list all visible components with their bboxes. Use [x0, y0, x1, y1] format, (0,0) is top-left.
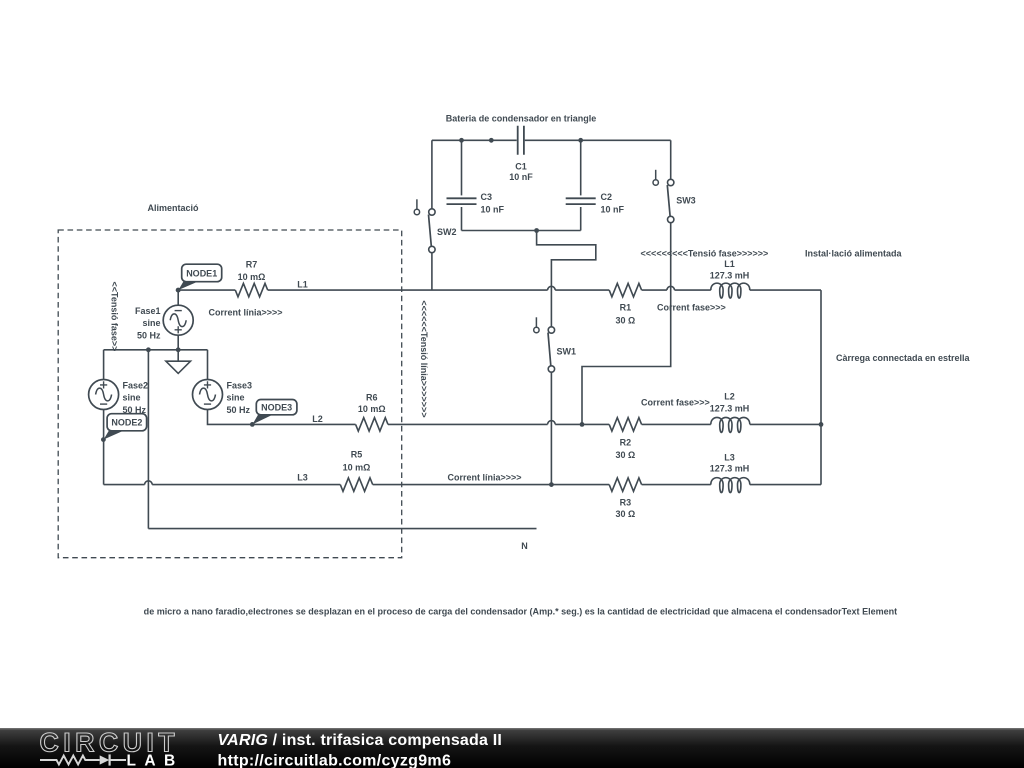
- svg-text:LAB: LAB: [127, 752, 184, 768]
- svg-text:R6: R6: [366, 392, 378, 402]
- text: net label L3: [297, 472, 308, 482]
- svg-text:SW1: SW1: [557, 346, 577, 356]
- svg-text:sine: sine: [227, 393, 245, 403]
- inductor L3 (127.3 mH): [710, 452, 750, 492]
- junction: NODE1 / row L1 / Fase1: [176, 288, 181, 293]
- junction: common rail / ground: [176, 347, 181, 352]
- capacitor C3 (10 nF): [447, 192, 505, 214]
- wire: to R2: [555, 423, 609, 425]
- text: net label L2: [312, 414, 323, 424]
- svg-text:Corrent línia>>>>: Corrent línia>>>>: [209, 308, 283, 318]
- junction: SW1 / row L3: [549, 482, 554, 487]
- wire: junction to R3: [549, 484, 609, 486]
- svg-text:VARIG / inst. trifasica compen: VARIG / inst. trifasica compensada II: [218, 732, 503, 749]
- svg-text:Corrent línia>>>>: Corrent línia>>>>: [448, 472, 522, 482]
- wire: R2 to inductor L2: [642, 423, 711, 425]
- wire: bank bottom rail: [462, 230, 581, 232]
- text: Alimentacio: [147, 203, 199, 213]
- svg-text:127.3 mH: 127.3 mH: [710, 464, 750, 474]
- wire: R6 to hop at SW1 bus: [388, 423, 548, 425]
- wire: C2 bottom lead: [580, 207, 582, 231]
- switch SW1: [534, 317, 576, 372]
- wire: SW2 to row L1: [431, 253, 433, 290]
- wire: R3 to inductor L3: [642, 484, 711, 486]
- logo LAB (filled): [127, 752, 184, 768]
- wire: SW3 branch down to row L2: [582, 223, 671, 425]
- svg-text:sine: sine: [123, 393, 141, 403]
- text: Tensio fase (top right): [641, 248, 769, 258]
- wire: C3 bottom lead: [461, 207, 463, 231]
- svg-text:50 Hz: 50 Hz: [227, 405, 251, 415]
- wire: common rail to Fase3 plus: [207, 350, 209, 380]
- svg-text:R7: R7: [246, 259, 258, 269]
- text: long bottom annotation: [144, 606, 898, 616]
- svg-text:L1: L1: [297, 280, 308, 290]
- text: Corrent fase (row 1): [657, 303, 726, 313]
- junction: SW3 branch / row L2: [580, 422, 585, 427]
- wire: L3 to R5: [152, 484, 340, 486]
- svg-text:10 nF: 10 nF: [509, 172, 533, 182]
- wire: inductor L3 to star bus: [750, 484, 821, 486]
- svg-text:L3: L3: [297, 472, 308, 482]
- svg-text:Càrrega connectada en estrella: Càrrega connectada en estrella: [836, 353, 971, 363]
- dashed box: Alimentacio enclosure: [58, 230, 402, 558]
- footer bar: [0, 728, 1024, 768]
- svg-text:de micro a nano faradio,electr: de micro a nano faradio,electrones se de…: [144, 606, 898, 616]
- svg-text:L2: L2: [724, 391, 735, 401]
- wire: L3 from Fase2 branch: [104, 484, 145, 486]
- text: net label L1: [297, 280, 308, 290]
- resistor R1 (30 &#937;): [609, 283, 641, 325]
- junction: top rail / C3: [459, 138, 464, 143]
- voltage source Fase3 (sine 50 Hz): [193, 380, 253, 415]
- wire hop: L3 over neutral drop: [145, 481, 153, 485]
- svg-text:SW2: SW2: [437, 227, 457, 237]
- svg-text:127.3 mH: 127.3 mH: [710, 403, 750, 413]
- resistor R7 (10 m&#937;): [235, 259, 267, 297]
- svg-text:NODE1: NODE1: [186, 268, 217, 278]
- svg-text:Corrent fase>>>: Corrent fase>>>: [657, 303, 726, 313]
- svg-text:30 Ω: 30 Ω: [616, 315, 636, 325]
- resistor R3 (30 &#937;): [609, 478, 641, 519]
- svg-text:N: N: [521, 541, 528, 551]
- wire: inductor L1 to star bus: [750, 289, 821, 291]
- svg-text:R2: R2: [620, 437, 632, 447]
- svg-text:R1: R1: [620, 303, 632, 313]
- svg-text:L1: L1: [724, 259, 735, 269]
- svg-text:http://circuitlab.com/cyzg9m6: http://circuitlab.com/cyzg9m6: [218, 752, 452, 768]
- junction: bank bottom / neutral tap: [534, 228, 539, 233]
- wire: common rail to Fase2 plus: [103, 350, 105, 380]
- footer title: [218, 732, 503, 749]
- logo CIRCUIT (outline): [40, 728, 179, 758]
- wire: R1 to hop at SW3 branch: [642, 289, 667, 291]
- wire hop: L1 over SW1 bus: [548, 286, 556, 290]
- resistor R5 (10 m&#937;): [340, 449, 372, 491]
- svg-text:R5: R5: [351, 449, 363, 459]
- resistor R2 (30 &#937;): [609, 418, 641, 460]
- wire hop: L1 over SW3 branch: [667, 286, 675, 290]
- wire: Fase2 minus down to row L3: [103, 410, 105, 485]
- wire: to inductor L1: [675, 289, 711, 291]
- svg-text:C3: C3: [481, 192, 493, 202]
- junction: top rail / C2: [578, 138, 583, 143]
- svg-text:10 mΩ: 10 mΩ: [358, 404, 386, 414]
- svg-text:C1: C1: [515, 161, 527, 171]
- svg-text:R3: R3: [620, 497, 632, 507]
- svg-text:<<<<<<Tensió línia>>>>>>>: <<<<<<Tensió línia>>>>>>>: [419, 300, 429, 417]
- voltage source Fase1 (sine 50 Hz): [135, 305, 193, 340]
- svg-text:<<<<<<<<<Tensió fase>>>>>>: <<<<<<<<<Tensió fase>>>>>>: [641, 248, 769, 258]
- inductor L2 (127.3 mH): [710, 391, 750, 432]
- wire: top rail left of C1: [432, 139, 517, 141]
- resistor R6 (10 m&#937;): [356, 392, 388, 431]
- svg-text:30 Ω: 30 Ω: [616, 450, 636, 460]
- svg-text:Bateria de condensador en tria: Bateria de condensador en triangle: [446, 113, 597, 123]
- svg-text:Fase1: Fase1: [135, 306, 161, 316]
- text: Corrent fase (row 2): [641, 397, 710, 407]
- text: node N label: [521, 541, 528, 551]
- wire: inductor L2 to star bus: [750, 423, 821, 425]
- svg-text:<<Tensió fase>>: <<Tensió fase>>: [110, 282, 120, 352]
- wire: R5 to SW1 bus junction: [373, 484, 550, 486]
- svg-text:SW3: SW3: [676, 195, 696, 205]
- wire: top rail right of C1: [525, 139, 671, 141]
- text: Corrent linia (row L1): [209, 308, 283, 318]
- svg-text:L3: L3: [724, 452, 735, 462]
- wire: left drop to SW2: [431, 140, 433, 209]
- text: Installacio alimentada: [805, 248, 903, 258]
- svg-text:10 nF: 10 nF: [481, 204, 505, 214]
- voltage source Fase2 (sine 50 Hz): [89, 380, 148, 415]
- capacitor C2 (10 nF): [566, 192, 625, 214]
- text: Tensio fase (rotated, left): [110, 282, 120, 352]
- wire: NODE1 to Fase1 plus: [177, 290, 179, 305]
- text: Carrega connectada en estrella: [836, 353, 971, 363]
- ground symbol: [166, 350, 191, 374]
- svg-text:Fase2: Fase2: [123, 380, 149, 390]
- node label NODE2: [101, 414, 147, 442]
- logo wire with resistor and diode: [40, 754, 126, 765]
- wire: neutral drop: [147, 350, 149, 529]
- svg-text:C2: C2: [601, 192, 613, 202]
- svg-text:10 nF: 10 nF: [601, 204, 625, 214]
- text: Corrent linia (row L3): [448, 472, 522, 482]
- svg-text:L2: L2: [312, 414, 323, 424]
- svg-text:Corrent fase>>>: Corrent fase>>>: [641, 397, 710, 407]
- wire: C2 top lead: [580, 140, 582, 195]
- wire: L1 to R1: [555, 289, 609, 291]
- junction: star bus / row L2: [819, 422, 824, 427]
- wire: SW1 down to row L3: [550, 372, 552, 484]
- junction: common rail / neutral drop: [146, 347, 151, 352]
- svg-text:Alimentació: Alimentació: [147, 203, 199, 213]
- footer url: [218, 752, 452, 768]
- wire: L1 from NODE1 to R7: [178, 289, 235, 291]
- svg-text:Fase3: Fase3: [227, 380, 253, 390]
- wire: NODE3 to R6: [251, 423, 356, 425]
- svg-text:NODE3: NODE3: [261, 403, 292, 413]
- capacitor C1 (10 nF): [509, 126, 533, 182]
- wire hop: L2 over SW1 bus: [548, 421, 556, 425]
- junction: top rail mid: [489, 138, 494, 143]
- svg-text:127.3 mH: 127.3 mH: [710, 270, 750, 280]
- wire: common rail of sources: [104, 349, 208, 351]
- svg-text:10 mΩ: 10 mΩ: [343, 462, 371, 472]
- svg-text:50 Hz: 50 Hz: [137, 331, 161, 341]
- svg-text:30 Ω: 30 Ω: [616, 509, 636, 519]
- switch SW2: [414, 199, 456, 252]
- wire: Fase1 minus to common: [177, 335, 179, 350]
- text: Bateria de condensador en triangle: [446, 113, 597, 123]
- svg-text:Instal·lació alimentada: Instal·lació alimentada: [805, 248, 903, 258]
- wire: star point bus: [820, 290, 822, 485]
- wire: bank tap step down to SW1: [537, 231, 596, 327]
- wire: C3 top lead: [461, 140, 463, 195]
- wire: right drop to SW3: [670, 140, 672, 179]
- svg-text:sine: sine: [142, 318, 160, 328]
- svg-text:10 mΩ: 10 mΩ: [238, 272, 266, 282]
- text: Tensio linia (rotated, center): [419, 300, 429, 417]
- wire: Fase3 minus to NODE3: [208, 410, 252, 425]
- switch SW3: [653, 170, 696, 223]
- inductor L1 (127.3 mH): [710, 259, 750, 298]
- wire: neutral N stub: [148, 528, 536, 530]
- node label NODE3: [250, 400, 297, 427]
- svg-text:NODE2: NODE2: [111, 418, 142, 428]
- wire: L1 from R7 to hop at SW1 bus: [268, 289, 548, 291]
- node label NODE1: [176, 264, 222, 292]
